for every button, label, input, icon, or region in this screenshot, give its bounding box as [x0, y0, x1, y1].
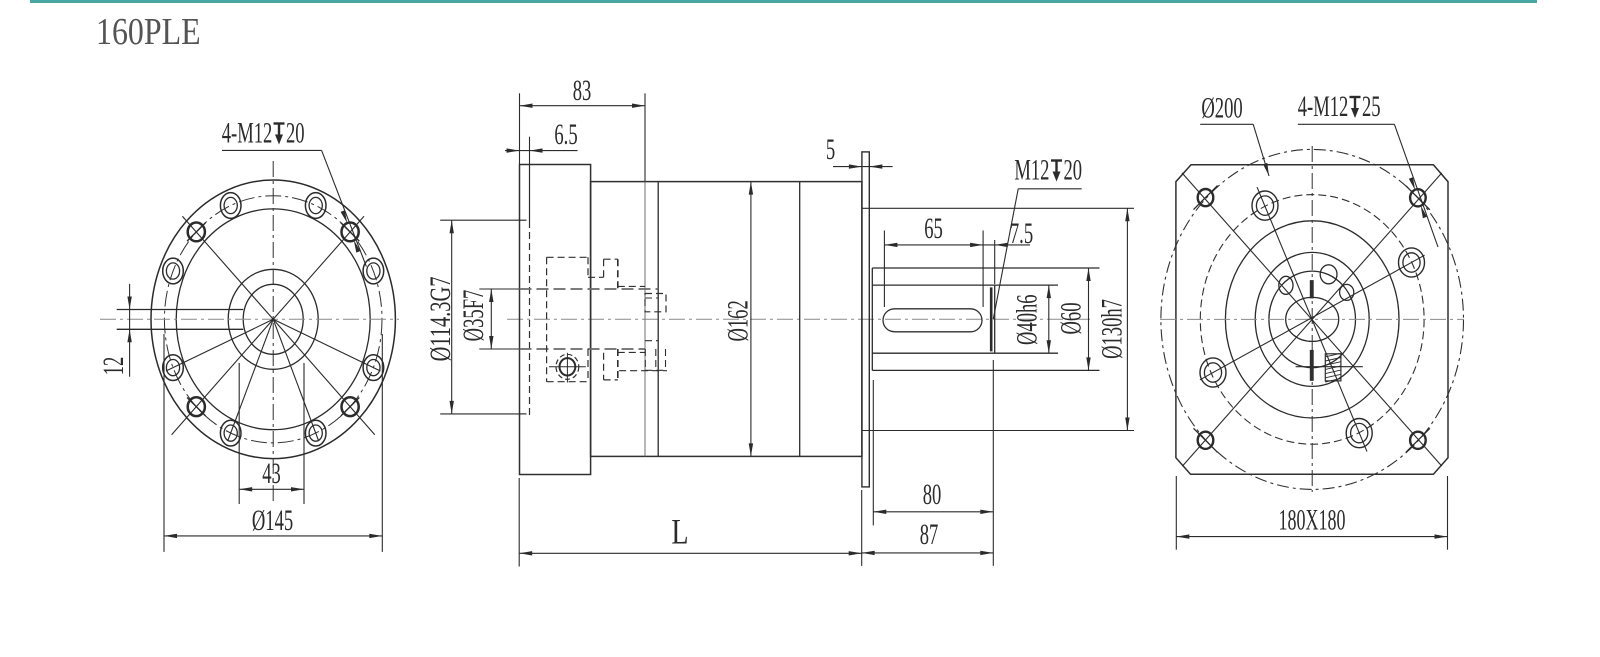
left view: input flange face — [98, 117, 399, 552]
through hole — [1399, 248, 1425, 277]
bolt hole at 337 deg — [363, 355, 384, 381]
shaft end face — [994, 285, 996, 353]
bolt hole at 157 deg — [163, 258, 184, 284]
svg-text:Ø60: Ø60 — [1055, 302, 1087, 334]
label M12 depth 20 — [993, 154, 1082, 319]
shaft Ø40 bottom line — [872, 352, 1058, 354]
svg-text:5: 5 — [826, 134, 835, 166]
label 4-M12 depth 25 — [1298, 91, 1438, 247]
dimension 87 — [862, 490, 994, 566]
dimension Ø40h6 — [1011, 285, 1051, 353]
dimension 80 — [873, 360, 993, 566]
dimension Ø35F7 — [458, 289, 520, 349]
motor bore hidden top — [520, 288, 659, 290]
tapped hole M12 at 135 deg — [187, 223, 205, 242]
svg-text:Ø130h7: Ø130h7 — [1096, 299, 1128, 359]
bore circle — [243, 284, 303, 354]
corner tapped hole M12 — [1194, 428, 1218, 452]
hub circle — [228, 269, 318, 369]
radial line 315 deg — [273, 319, 375, 434]
dimension L — [519, 478, 862, 567]
dimension Ø162 — [722, 182, 754, 457]
dimension Ø145 — [164, 334, 382, 552]
radial line 203 deg — [166, 319, 273, 371]
svg-text:12: 12 — [98, 357, 130, 376]
through hole — [1252, 191, 1278, 220]
bolt hole at 113 deg — [220, 193, 241, 219]
radial line 135 deg — [182, 216, 273, 319]
small hole A — [1279, 276, 1293, 294]
front flange plate — [520, 165, 591, 475]
tapped hole M12 at 225 deg — [187, 397, 205, 416]
horizontal centerline — [1160, 318, 1464, 320]
middle view: side section — [423, 75, 1134, 567]
svg-text:43: 43 — [262, 458, 281, 490]
svg-text:M12: M12 — [1014, 154, 1049, 186]
key section bottom: hatched key — [1296, 353, 1363, 382]
shaft shoulder face — [871, 268, 873, 370]
square flange outline with chamfered corners — [1176, 165, 1448, 474]
radial line 247 deg — [228, 319, 274, 441]
centerline — [507, 318, 1093, 320]
body outline — [591, 182, 862, 457]
motor shaft hidden lines — [645, 294, 667, 371]
inner bolt circle (dashed) — [1200, 195, 1424, 445]
clamp screw — [549, 353, 586, 383]
right view: square output flange — [1160, 91, 1464, 550]
bolt circle (dash-dot) — [164, 196, 382, 443]
svg-text:L: L — [671, 511, 688, 551]
shoulder Ø60 top line — [872, 267, 1099, 269]
svg-text:180X180: 180X180 — [1279, 504, 1346, 537]
shaft Ø40 top line — [872, 284, 1058, 286]
bore circle — [1286, 297, 1339, 341]
dimension 7.5 — [983, 218, 1033, 284]
svg-text:Ø40h6: Ø40h6 — [1011, 294, 1043, 345]
title 160PLE — [96, 10, 201, 54]
vertical centerline — [1311, 146, 1313, 492]
shaft keyway slot — [883, 309, 982, 332]
svg-text:4-M12: 4-M12 — [1298, 91, 1349, 123]
dimension Ø130h7 — [1096, 208, 1129, 430]
construction line through upper-left and lower-right holes — [1257, 187, 1367, 452]
clamp collar hidden outline — [547, 257, 667, 381]
dimension 6.5 — [505, 119, 578, 165]
svg-text:Ø200: Ø200 — [1201, 92, 1242, 124]
keyway line bottom — [117, 328, 244, 330]
spigot bottom line — [863, 430, 1135, 432]
inner circle 3 — [1269, 271, 1356, 368]
construction line through upper-right and lower-left holes — [1200, 255, 1425, 380]
svg-text:25: 25 — [1362, 91, 1381, 123]
dimension Ø114.3G7 — [423, 220, 529, 414]
svg-text:20: 20 — [1064, 154, 1083, 186]
shaft end chamfer — [990, 287, 993, 351]
shoulder Ø60 bottom line — [872, 369, 1099, 371]
horizontal centerline — [100, 318, 399, 320]
key section bottom: slot bar — [1310, 350, 1314, 381]
through hole — [1346, 419, 1372, 448]
dimension 5 — [826, 134, 893, 169]
rear flange plate — [862, 152, 869, 487]
keyway slot top (filled) — [1310, 280, 1314, 298]
flange inner ring circle — [176, 209, 370, 430]
label Ø200 — [1200, 92, 1269, 176]
bolt hole at 247 deg — [220, 420, 241, 446]
through hole — [1200, 358, 1226, 387]
svg-text:Ø35F7: Ø35F7 — [458, 290, 490, 342]
inner circle 2 — [1255, 252, 1369, 386]
diagonal construction line TL-BR — [1182, 173, 1442, 466]
radial line 293 deg — [273, 319, 319, 441]
flange outer circle — [151, 180, 395, 459]
svg-text:Ø162: Ø162 — [722, 300, 754, 341]
body division line 1 — [644, 182, 646, 457]
bolt hole at 23 deg — [363, 258, 384, 284]
small hole B — [1320, 265, 1337, 284]
bolt hole at 203 deg — [163, 355, 184, 381]
teal top rule — [30, 0, 1537, 3]
dimension 180X180 — [1176, 476, 1447, 550]
svg-text:83: 83 — [573, 75, 592, 107]
svg-text:65: 65 — [924, 213, 943, 245]
small hole C — [1340, 284, 1354, 300]
pilot circle — [1225, 221, 1399, 418]
svg-text:20: 20 — [286, 117, 305, 149]
bolt hole at 67 deg — [305, 193, 326, 219]
keyway line top — [117, 309, 244, 311]
radial line 45 deg — [273, 216, 364, 319]
svg-text:80: 80 — [923, 479, 942, 511]
dimension 12 — [98, 284, 132, 377]
svg-text:7.5: 7.5 — [1010, 218, 1033, 250]
vertical centerline — [272, 161, 274, 505]
svg-text:Ø145: Ø145 — [252, 505, 293, 537]
motor bore hidden bottom — [520, 348, 646, 350]
svg-text:6.5: 6.5 — [554, 119, 577, 151]
svg-text:4-M12: 4-M12 — [222, 117, 273, 149]
Ø200 bolt circle (dash-dot) — [1161, 149, 1464, 489]
corner tapped hole M12 — [1406, 186, 1430, 210]
bolt hole at 293 deg — [305, 420, 326, 446]
svg-text:Ø114.3G7: Ø114.3G7 — [423, 276, 457, 361]
dimension Ø60 — [1055, 268, 1090, 370]
svg-text:87: 87 — [920, 519, 939, 551]
spigot top line — [863, 207, 1135, 209]
dimension 43 — [239, 363, 304, 504]
corner tapped hole M12 — [1194, 186, 1218, 210]
body division line 3 — [799, 182, 801, 457]
pilot bore hidden edge (6.5 deep) — [529, 165, 531, 222]
radial line 337 deg — [273, 319, 380, 371]
corner tapped hole M12 — [1406, 428, 1430, 452]
dimension 65 — [884, 213, 983, 307]
radial line 225 deg — [172, 319, 274, 434]
diagonal construction line TR-BL — [1182, 173, 1441, 466]
tapped hole M12 at 45 deg — [341, 223, 359, 242]
body division line 2 — [657, 182, 659, 457]
dimension 83 — [520, 75, 646, 182]
label 4-M12 depth 20 — [222, 117, 367, 266]
tapped hole M12 at 315 deg — [341, 397, 359, 416]
